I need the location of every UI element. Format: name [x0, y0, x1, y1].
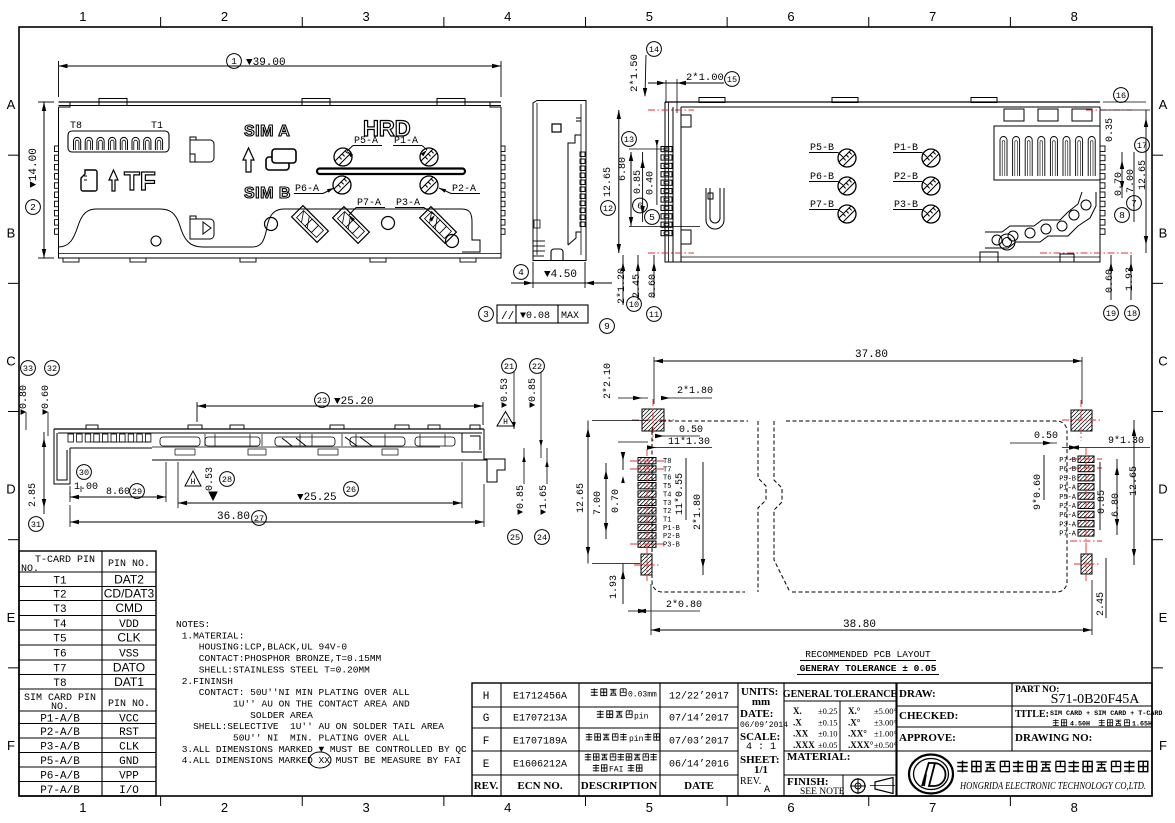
right contact block: [994, 126, 1100, 180]
svg-text:SIM CARD + SIM CARD + T-CARD: SIM CARD + SIM CARD + T-CARD: [1050, 710, 1162, 718]
svg-text:DESCRIPTION: DESCRIPTION: [581, 780, 657, 792]
front view right end detail: [462, 433, 482, 452]
svg-text:28: 28: [222, 475, 232, 485]
svg-text:32: 32: [47, 364, 57, 374]
dim 36.80 balloon 27: [69, 505, 71, 527]
svg-text:F: F: [483, 736, 490, 748]
svg-text:2: 2: [221, 9, 228, 24]
general tolerance box: [783, 683, 785, 796]
svg-text:CONTACT:PHOSPHOR BRONZE,T=0.15: CONTACT:PHOSPHOR BRONZE,T=0.15MM: [176, 653, 382, 664]
svg-text:SIM A: SIM A: [244, 123, 290, 140]
svg-text:±0.05: ±0.05: [818, 740, 838, 750]
svg-text:A: A: [1159, 97, 1168, 112]
svg-text:0.60: 0.60: [648, 274, 659, 298]
svg-text:14: 14: [649, 45, 659, 55]
svg-text:5: 5: [649, 212, 655, 223]
svg-text:6.80: 6.80: [618, 157, 629, 181]
svg-text:T7: T7: [53, 663, 66, 675]
balloon 2: [26, 200, 41, 215]
svg-text:MAX: MAX: [561, 311, 579, 322]
left serration: [55, 146, 59, 152]
svg-text:P2-A: P2-A: [1059, 503, 1077, 511]
svg-text:11: 11: [649, 310, 659, 320]
svg-text:T4: T4: [663, 491, 671, 499]
view: bottom view outline: [681, 107, 1100, 262]
screw P5-B: [838, 149, 856, 167]
finish symbol cone: [875, 778, 893, 794]
bottom inner line view3: [681, 256, 1100, 258]
svg-text:T3: T3: [53, 604, 66, 616]
U clip: [706, 188, 724, 229]
zone column labels: [160, 17, 162, 27]
balloon 8: [1115, 208, 1130, 223]
balloon 19: [1104, 306, 1119, 321]
svg-text:33: 33: [23, 364, 33, 374]
svg-text:06/09’2014: 06/09’2014: [740, 721, 788, 730]
end view foot detail: [533, 240, 545, 242]
svg-text:4.50H: 4.50H: [1070, 721, 1090, 729]
dim 0.70 pcb: [622, 454, 624, 470]
svg-text:3: 3: [362, 9, 369, 24]
balloon 28: [220, 472, 235, 487]
svg-text:12/22’2017: 12/22’2017: [669, 691, 729, 703]
svg-text:T2: T2: [53, 590, 66, 602]
svg-text:NO.: NO.: [21, 564, 39, 575]
balloon 21: [502, 359, 517, 374]
right block top holes: [1004, 109, 1024, 121]
svg-text:TF: TF: [124, 166, 156, 196]
svg-text:1: 1: [79, 800, 86, 815]
right bottom dims 19 18: [1110, 255, 1112, 300]
dim 2.85 balloon 31: [43, 432, 45, 514]
svg-text:T5: T5: [663, 483, 671, 491]
svg-text:0.60: 0.60: [1105, 269, 1116, 293]
svg-text:VPP: VPP: [119, 770, 139, 782]
svg-text:VDD: VDD: [119, 619, 139, 631]
svg-text:±5.00°: ±5.00°: [874, 706, 897, 716]
svg-text:D: D: [1158, 482, 1167, 497]
dim 14.00: [38, 101, 54, 103]
balloon 24: [535, 530, 550, 545]
dim 25.20 balloon 23: [196, 402, 198, 422]
svg-text:12: 12: [603, 204, 613, 214]
dim 12.65 pcb left: [587, 421, 589, 564]
view: front view outline: [54, 428, 484, 430]
svg-text:E: E: [483, 759, 490, 771]
balloon 5: [645, 210, 660, 225]
svg-text:VSS: VSS: [119, 649, 139, 661]
svg-text:CLK: CLK: [117, 631, 140, 645]
screw P5-A: [334, 148, 352, 166]
svg-text://: //: [501, 311, 514, 323]
svg-text:▼25.20: ▼25.20: [334, 396, 374, 408]
svg-text:11*1.30: 11*1.30: [668, 436, 710, 448]
view: top view outline: [59, 107, 502, 258]
svg-text:1: 1: [231, 56, 237, 67]
svg-text:22: 22: [532, 362, 542, 372]
svg-text:DATE:: DATE:: [740, 708, 773, 720]
svg-text:A: A: [7, 97, 16, 112]
svg-text:T-CARD PIN: T-CARD PIN: [35, 555, 95, 566]
svg-text:HONGRIDA ELECTRONIC TECHNOLOGY: HONGRIDA ELECTRONIC TECHNOLOGY CO,LTD.: [959, 781, 1146, 792]
pcb dashed outline: [652, 421, 1067, 431]
dim 7.00 pcb: [605, 463, 607, 539]
svg-text:2.85: 2.85: [28, 483, 39, 507]
svg-text:RST: RST: [119, 727, 139, 739]
svg-text:21: 21: [504, 362, 514, 372]
finish symbol circle: [851, 779, 865, 793]
svg-text:4 : 1: 4 : 1: [746, 742, 776, 753]
svg-text:T1: T1: [53, 575, 67, 587]
bottom feet: [63, 258, 79, 262]
balloon 6: [633, 198, 648, 213]
svg-text:P1-A/B: P1-A/B: [40, 713, 80, 725]
zone row labels: [8, 154, 19, 156]
svg-text:P5-A/B: P5-A/B: [40, 756, 80, 768]
svg-text:SHELL:SELECTIVE 1U'' AU ON SO: SHELL:SELECTIVE 1U'' AU ON SOLDER TAIL A…: [176, 721, 444, 732]
svg-text:SEE NOTE: SEE NOTE: [800, 787, 845, 797]
svg-text:07/03’2017: 07/03’2017: [669, 736, 729, 748]
screw P7-B: [838, 205, 856, 223]
balloon 11: [647, 307, 662, 322]
T contact block: [68, 131, 169, 152]
svg-text:±3.00°: ±3.00°: [874, 717, 897, 727]
front view inner parts: [160, 437, 200, 446]
svg-text:mm: mm: [752, 696, 770, 708]
svg-text:E1606212A: E1606212A: [513, 760, 567, 771]
svg-text:2*1.20: 2*1.20: [616, 268, 628, 304]
svg-text:6: 6: [637, 201, 643, 212]
svg-text:0.53: 0.53: [205, 467, 216, 491]
svg-text:D: D: [6, 482, 15, 497]
svg-text:P6-A: P6-A: [1059, 512, 1077, 520]
dim 2.45 pcb: [1105, 558, 1107, 618]
svg-text:H: H: [191, 478, 196, 487]
svg-text:▼1.65: ▼1.65: [539, 485, 550, 515]
svg-text:12.65: 12.65: [1129, 466, 1140, 496]
svg-text:5: 5: [646, 9, 653, 24]
svg-text:ECN NO.: ECN NO.: [517, 780, 562, 792]
svg-text:A: A: [764, 785, 770, 796]
svg-text:4: 4: [504, 800, 511, 815]
thick bar: [317, 169, 465, 175]
balloon 17: [1135, 138, 1150, 153]
dim 12.65 pcb: [1133, 420, 1135, 565]
svg-text:NO.: NO.: [51, 702, 69, 713]
svg-text:REV.: REV.: [740, 776, 761, 787]
svg-text:2: 2: [221, 800, 228, 815]
SIM card icon: [272, 149, 296, 163]
svg-text:P7-B: P7-B: [1059, 457, 1076, 465]
svg-text:.X°: .X°: [848, 717, 861, 727]
screw P2-B: [922, 177, 940, 195]
svg-text:SHELL:STAINLESS STEEL T=0.20MM: SHELL:STAINLESS STEEL T=0.20MM: [176, 664, 370, 675]
svg-text:12.65: 12.65: [1138, 160, 1149, 190]
TF up arrow: [109, 170, 118, 191]
svg-text:P3-A: P3-A: [1059, 521, 1077, 529]
dim 6.80 pcb: [1116, 459, 1118, 535]
inner lower contour: [59, 209, 481, 252]
company name CJK: [957, 761, 967, 773]
svg-text:FAI: FAI: [609, 766, 623, 775]
svg-text:SOLDER AREA: SOLDER AREA: [176, 710, 313, 721]
svg-text:2.45: 2.45: [632, 274, 643, 298]
svg-text:B: B: [1159, 225, 1168, 240]
svg-text:1.65H: 1.65H: [1132, 721, 1152, 729]
svg-text:9*0.60: 9*0.60: [1032, 474, 1044, 510]
svg-text:0.50: 0.50: [679, 425, 703, 436]
svg-text:10: 10: [629, 300, 639, 310]
bottom view right serration: [1100, 146, 1105, 152]
svg-text:P1-A: P1-A: [1059, 485, 1077, 493]
bottom dim stack balloons 9 10 11: [622, 255, 624, 305]
svg-text:7.00: 7.00: [1126, 169, 1137, 193]
svg-text:VCC: VCC: [119, 713, 139, 725]
svg-text:NOTES:: NOTES:: [176, 619, 210, 630]
svg-text:I/O: I/O: [119, 785, 139, 797]
svg-text:▼0.85: ▼0.85: [528, 378, 539, 408]
svg-text:38.80: 38.80: [843, 619, 876, 631]
svg-text:▼39.00: ▼39.00: [246, 57, 286, 69]
svg-text:P7-A: P7-A: [1059, 531, 1077, 539]
svg-text:27: 27: [254, 514, 264, 524]
svg-text:P7-A/B: P7-A/B: [40, 785, 80, 797]
view: end view outline: [533, 101, 586, 261]
balloon 15: [725, 72, 740, 87]
front view top bumps: [86, 425, 98, 429]
balloon 29: [130, 484, 145, 499]
svg-text:9: 9: [604, 321, 610, 332]
stair circles: [992, 235, 1002, 245]
right stair band: [985, 192, 1096, 248]
svg-text:DAT2: DAT2: [114, 572, 144, 586]
svg-text:T6: T6: [53, 649, 66, 661]
svg-text:APPROVE:: APPROVE:: [899, 732, 956, 744]
svg-text:.XXX: .XXX: [793, 740, 815, 750]
svg-text:H: H: [483, 691, 490, 703]
bottom view left edge detail: [681, 115, 691, 244]
svg-text:8: 8: [1071, 800, 1078, 815]
svg-text:2*0.80: 2*0.80: [666, 599, 702, 611]
svg-text:2.FININSH: 2.FININSH: [176, 676, 233, 687]
svg-text:H: H: [503, 418, 508, 427]
svg-text:13: 13: [624, 135, 634, 145]
svg-text:RECOMMENDED PCB LAYOUT: RECOMMENDED PCB LAYOUT: [805, 649, 931, 660]
svg-text:±0.10: ±0.10: [818, 729, 838, 739]
svg-text:1.93: 1.93: [1125, 267, 1136, 291]
svg-text:0.03mm: 0.03mm: [628, 691, 657, 700]
svg-text:19: 19: [1106, 309, 1116, 319]
svg-text:31: 31: [31, 520, 41, 530]
svg-text:REV.: REV.: [474, 780, 499, 792]
svg-text:pin: pin: [629, 735, 644, 744]
svg-text:4: 4: [518, 267, 524, 278]
end view serration: [580, 152, 585, 157]
svg-text:TITLE:: TITLE:: [1015, 709, 1049, 720]
end view inner profile: [568, 118, 581, 245]
bottom view left contact stack: [661, 147, 672, 152]
svg-text:±0.50°: ±0.50°: [874, 740, 897, 750]
bottom right corner detail: [980, 252, 1074, 262]
svg-text:6: 6: [787, 9, 794, 24]
balloon 1: [227, 54, 242, 69]
company logo: [909, 755, 953, 794]
svg-text:1.93: 1.93: [609, 575, 620, 599]
end view hole: [552, 124, 561, 132]
balloon 25: [508, 530, 523, 545]
svg-text:26: 26: [346, 485, 356, 495]
svg-text:▼0.53: ▼0.53: [500, 378, 511, 408]
svg-text:P2-B: P2-B: [663, 533, 680, 541]
svg-text:P3-B: P3-B: [663, 542, 680, 550]
svg-text:7.00: 7.00: [593, 491, 604, 515]
svg-text:C: C: [6, 353, 15, 368]
svg-text:S71-0B20F45A: S71-0B20F45A: [1051, 692, 1141, 707]
svg-text:6: 6: [787, 800, 794, 815]
balloon 13: [622, 132, 637, 147]
svg-text:GND: GND: [119, 756, 139, 768]
svg-text:.XX°: .XX°: [848, 729, 867, 739]
balloon 26: [344, 482, 359, 497]
double circle: [999, 234, 1015, 250]
balloon 30: [77, 465, 92, 480]
svg-text:P6-A/B: P6-A/B: [40, 770, 80, 782]
svg-text:2*1.80: 2*1.80: [677, 385, 713, 397]
svg-text:8: 8: [1119, 210, 1125, 221]
svg-text:P5-A: P5-A: [1059, 494, 1077, 502]
svg-text:8: 8: [1071, 9, 1078, 24]
revision table: [472, 683, 1152, 796]
dim 38.80: [650, 584, 652, 635]
balloon 27: [252, 511, 267, 526]
svg-text:0.35: 0.35: [1105, 118, 1116, 142]
svg-text:30: 30: [79, 468, 89, 478]
svg-text:X.°: X.°: [848, 706, 861, 716]
svg-text:DRAW:: DRAW:: [899, 688, 936, 700]
svg-text:8.60: 8.60: [106, 487, 130, 498]
svg-text:P5-B: P5-B: [1059, 475, 1076, 483]
svg-text:B: B: [7, 225, 16, 240]
svg-text:▼4.50: ▼4.50: [544, 269, 577, 281]
H triangle left + 0.53 balloon 28: [185, 471, 201, 486]
right serration: [501, 146, 505, 152]
balloon 23: [315, 393, 330, 408]
TF card icon: [81, 170, 97, 191]
svg-text:11*0.55: 11*0.55: [674, 473, 686, 515]
balloon 10: [627, 297, 642, 312]
screw P6-A: [333, 176, 351, 194]
svg-text:▼0.08: ▼0.08: [520, 311, 550, 322]
svg-text:P1-B: P1-B: [663, 525, 680, 533]
svg-text:F: F: [7, 738, 15, 753]
svg-text:F: F: [1159, 738, 1167, 753]
svg-text:C: C: [1158, 353, 1167, 368]
svg-text:P6-B: P6-B: [1059, 466, 1076, 474]
svg-text:1.MATERIAL:: 1.MATERIAL:: [176, 630, 244, 641]
svg-text:29: 29: [132, 487, 142, 497]
svg-text:±1.00°: ±1.00°: [874, 729, 897, 739]
svg-text:▼0.60: ▼0.60: [41, 385, 52, 415]
balloon 18: [1125, 306, 1140, 321]
dim 8.60 balloon 29: [69, 492, 71, 502]
svg-text:0.70: 0.70: [1114, 172, 1125, 196]
flatness callout: [497, 305, 588, 323]
front view teeth: [68, 434, 74, 442]
svg-text:0.70: 0.70: [611, 489, 622, 513]
svg-text:18: 18: [1127, 309, 1137, 319]
front view right foot: [484, 429, 505, 482]
svg-text:9*1.30: 9*1.30: [1108, 435, 1144, 447]
svg-text:0.50: 0.50: [1034, 431, 1058, 442]
svg-text:T3: T3: [663, 500, 671, 508]
screw P3-B: [922, 205, 940, 223]
svg-text:36.80: 36.80: [217, 511, 250, 523]
balloon 32: [45, 361, 60, 376]
svg-text:MATERIAL:: MATERIAL:: [787, 751, 850, 763]
dim 4.50: [532, 262, 534, 288]
svg-text:06/14’2016: 06/14’2016: [669, 759, 729, 771]
svg-text:T7: T7: [663, 466, 671, 474]
svg-text:4: 4: [504, 9, 511, 24]
svg-text:▼0.80: ▼0.80: [19, 385, 30, 415]
svg-text:12.65: 12.65: [603, 167, 614, 197]
svg-text:DRAWING NO:: DRAWING NO:: [1015, 732, 1092, 744]
bottom view top tabs: [699, 98, 725, 103]
rev descriptions (CJK): [591, 688, 598, 696]
svg-text:▼14.00: ▼14.00: [28, 148, 40, 188]
svg-text:1.00: 1.00: [74, 482, 98, 493]
dim 37.80: [653, 357, 655, 404]
svg-text:7: 7: [929, 800, 936, 815]
dim 9*0.60: [1043, 455, 1045, 500]
angled contact 1: [292, 206, 329, 243]
bottom inner line view1: [59, 253, 502, 255]
dim 11*0.55: [685, 458, 687, 520]
svg-text:7: 7: [1131, 198, 1137, 209]
svg-text:.X: .X: [793, 717, 802, 727]
svg-text:4.ALL DIMENSIONS MARKED XX MUS: 4.ALL DIMENSIONS MARKED XX MUST BE MEASU…: [176, 755, 461, 766]
svg-text:SIM B: SIM B: [244, 185, 291, 202]
balloon 31: [29, 517, 44, 532]
svg-text:T1: T1: [663, 516, 671, 524]
screw P1-B: [922, 149, 940, 167]
svg-text:E1707213A: E1707213A: [513, 714, 567, 725]
screw P1-A: [420, 148, 438, 166]
left dim stack balloons 13 12 6 5: [618, 110, 620, 253]
svg-text:2*1.00: 2*1.00: [686, 72, 724, 84]
svg-text:PIN NO.: PIN NO.: [108, 559, 150, 570]
svg-text:3.ALL DIMENSIONS MARKED ▼ MUST: 3.ALL DIMENSIONS MARKED ▼ MUST BE CONTRO…: [176, 744, 467, 755]
svg-text:CMD: CMD: [115, 601, 143, 615]
front view tick details: [204, 434, 206, 446]
svg-text:E1707189A: E1707189A: [513, 737, 567, 748]
svg-text:pin: pin: [634, 713, 649, 722]
svg-text:3: 3: [483, 309, 489, 320]
svg-text:DATO: DATO: [113, 660, 145, 674]
svg-text:24: 24: [537, 533, 547, 543]
svg-text:HOUSING:LCP,BLACK,UL 94V-0: HOUSING:LCP,BLACK,UL 94V-0: [176, 642, 347, 653]
svg-text:CHECKED:: CHECKED:: [899, 710, 958, 722]
svg-text:CONTACT: 50U''NI MIN PLATING O: CONTACT: 50U''NI MIN PLATING OVER ALL: [176, 687, 410, 698]
balloon 16: [1114, 88, 1129, 103]
svg-text:E: E: [7, 610, 16, 625]
mid clip upper: [190, 137, 214, 162]
svg-text:.XXX°: .XXX°: [848, 740, 874, 750]
svg-text:3: 3: [362, 800, 369, 815]
svg-text:T6: T6: [663, 475, 671, 483]
svg-text:15: 15: [727, 75, 737, 85]
svg-text:GENERAY TOLERANCE ± 0.05: GENERAY TOLERANCE ± 0.05: [800, 663, 937, 674]
